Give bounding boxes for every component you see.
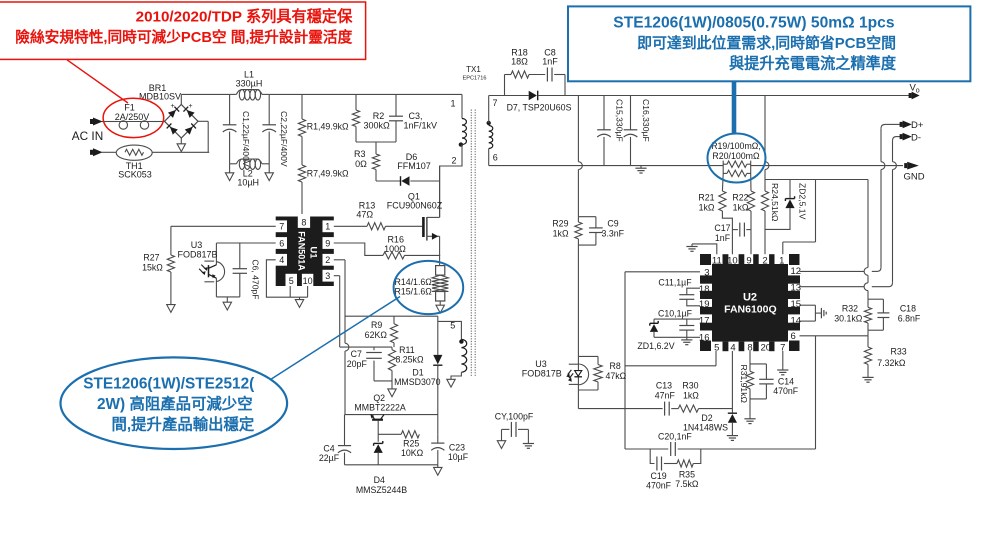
svg-text:1: 1 (325, 222, 330, 232)
ground pin7 (777, 351, 788, 375)
pin 6 label (493, 153, 498, 163)
svg-text:R9: R9 (371, 320, 382, 330)
Vo label (910, 83, 920, 95)
svg-text:MMSD3070: MMSD3070 (394, 377, 441, 387)
svg-text:2W) 高阻產品可減少空: 2W) 高阻產品可減少空 (97, 394, 253, 413)
resistor R18 (511, 71, 529, 78)
diode D6 (401, 176, 410, 186)
svg-text:C19: C19 (651, 471, 667, 481)
R7 label (307, 168, 349, 178)
Q2 label (354, 393, 405, 413)
resistor R32 (864, 299, 883, 330)
svg-text:C20,1nF: C20,1nF (658, 432, 692, 442)
zener D4 (374, 441, 383, 465)
svg-text:+: + (170, 103, 174, 110)
ground R14 R15 (436, 305, 444, 313)
R11 label (395, 345, 424, 364)
C13 label (655, 381, 676, 401)
R14 R15 labels (394, 277, 434, 297)
wire bridge to rail (180, 94, 182, 104)
resistor R31 (746, 351, 766, 416)
svg-text:0Ω: 0Ω (355, 159, 367, 169)
svg-text:R8: R8 (610, 361, 621, 371)
svg-text:即可達到此位置需求,同時節省PCB空間: 即可達到此位置需求,同時節省PCB空間 (637, 34, 896, 52)
transformer core (471, 110, 475, 377)
wire pin2 net (334, 260, 349, 415)
svg-text:R21: R21 (698, 193, 714, 203)
U2 label (724, 292, 777, 316)
svg-text:險絲安規特性,同時可減少PCB空 間,提升設計靈活度: 險絲安規特性,同時可減少PCB空 間,提升設計靈活度 (15, 28, 352, 46)
capacitor C15 (597, 96, 611, 166)
svg-text:MMBT2222A: MMBT2222A (354, 403, 405, 413)
ground C23 (434, 465, 442, 475)
secondary dot (487, 121, 491, 125)
svg-text:11: 11 (712, 255, 722, 266)
svg-text:R27: R27 (143, 252, 159, 262)
terminal D- (900, 133, 912, 141)
svg-text:6.8nF: 6.8nF (898, 314, 921, 324)
svg-text:7: 7 (493, 98, 498, 108)
resistor R25 (378, 431, 419, 438)
svg-text:R15/1.6Ω: R15/1.6Ω (395, 287, 433, 297)
svg-text:6: 6 (493, 153, 498, 163)
wire pin9 (334, 243, 383, 255)
U2 pin numbers (699, 255, 801, 353)
svg-text:間,提升產品輸出穩定: 間,提升產品輸出穩定 (112, 414, 255, 433)
resistor R13 (367, 223, 422, 230)
ground D2 (727, 433, 738, 440)
svg-text:22µF: 22µF (319, 453, 340, 463)
svg-text:1kΩ: 1kΩ (699, 203, 715, 213)
svg-text:C16,330µF: C16,330µF (641, 99, 651, 142)
svg-text:C6, 470pF: C6, 470pF (250, 259, 260, 299)
svg-text:470nF: 470nF (646, 481, 672, 491)
svg-text:FAN6100Q: FAN6100Q (724, 304, 777, 316)
R13 label (356, 200, 375, 219)
D1 label (394, 367, 441, 387)
wire feedback Vo (578, 96, 582, 217)
wire pin6 node (800, 330, 869, 336)
capacitor CY (497, 422, 534, 449)
C18 label (898, 303, 921, 323)
svg-text:16: 16 (699, 332, 710, 343)
C1 label (241, 111, 251, 167)
svg-text:U3: U3 (535, 359, 547, 369)
R16 label (384, 235, 406, 254)
svg-text:C14: C14 (778, 377, 794, 387)
wire rail to primary (461, 94, 463, 118)
svg-text:18Ω: 18Ω (511, 57, 528, 67)
inductor L2 (230, 159, 270, 169)
svg-text:47Ω: 47Ω (356, 210, 373, 220)
svg-text:2: 2 (451, 155, 456, 165)
pin 7 label (493, 98, 498, 108)
resistor R22 (747, 174, 754, 254)
blue circle R19 R20 (708, 134, 766, 183)
ground C2 (265, 164, 273, 181)
resistor R33 (864, 336, 871, 375)
wire GND rail (489, 165, 903, 167)
ground C10 (681, 337, 692, 344)
capacitor C17 (732, 223, 751, 237)
blue bubble (61, 357, 288, 449)
svg-text:ZD2,5.1V: ZD2,5.1V (798, 183, 808, 220)
zener ZD1 (650, 319, 658, 337)
CY label (495, 411, 534, 421)
capacitor C8 (529, 68, 565, 82)
wire D6 to drain (410, 180, 439, 182)
R27 label (142, 252, 163, 272)
wire Q2 bottom rail (345, 464, 439, 466)
ground C1 (225, 164, 233, 181)
svg-text:1nF: 1nF (542, 57, 558, 67)
svg-text:R20/100mΩ: R20/100mΩ (712, 151, 760, 161)
capacitor C7 (366, 347, 392, 381)
svg-text:D2: D2 (701, 413, 712, 423)
resistor R19 R20 (723, 161, 751, 177)
wire D+ net (800, 124, 901, 271)
AC input terminal L (90, 118, 117, 126)
capacitor C3 (389, 94, 403, 142)
svg-text:1: 1 (779, 255, 784, 266)
svg-text:47nF: 47nF (655, 390, 676, 400)
svg-text:2010/2020/TDP 系列具有穩定保: 2010/2020/TDP 系列具有穩定保 (136, 8, 353, 26)
C23 label (448, 442, 469, 462)
svg-text:R24,51kΩ: R24,51kΩ (770, 183, 780, 222)
TX1 label (463, 65, 487, 82)
C15 label (615, 99, 625, 142)
R3 label (354, 149, 367, 169)
terminal GND (904, 162, 919, 170)
capacitor C2 (262, 94, 276, 163)
resistor R1 (298, 94, 305, 136)
diode D2 (728, 413, 737, 433)
svg-text:D+: D+ (911, 120, 924, 131)
svg-text:1kΩ: 1kΩ (553, 229, 569, 239)
svg-text:8.25kΩ: 8.25kΩ (395, 355, 424, 365)
R21 label (698, 193, 714, 213)
TH1 label (118, 161, 152, 180)
svg-text:FOD817B: FOD817B (522, 369, 562, 379)
svg-text:5: 5 (450, 321, 455, 331)
svg-text:3.3nF: 3.3nF (602, 229, 625, 239)
C8 label (542, 47, 558, 66)
svg-text:1kΩ: 1kΩ (683, 390, 699, 400)
resistor R14 R15 (432, 266, 448, 306)
svg-text:1kΩ: 1kΩ (733, 203, 749, 213)
svg-text:R14/1.6Ω,: R14/1.6Ω, (394, 277, 434, 287)
svg-text:FAN501A: FAN501A (297, 231, 307, 271)
svg-text:EPC1716: EPC1716 (463, 76, 487, 82)
wire R1-R7 (301, 137, 303, 166)
red ellipse F1 (103, 98, 164, 137)
svg-text:R7,49.9kΩ: R7,49.9kΩ (307, 168, 349, 178)
wire opto to rail (577, 390, 579, 409)
blue note box (568, 6, 970, 81)
capacitor C6 (233, 243, 247, 297)
aux dot (459, 339, 463, 343)
svg-text:300kΩ: 300kΩ (364, 120, 391, 130)
wire opto ground (216, 297, 239, 310)
R30 label (682, 381, 699, 401)
svg-text:18: 18 (699, 284, 710, 295)
svg-text:9: 9 (325, 238, 330, 248)
U1 label (297, 231, 319, 271)
ground secondary (635, 166, 646, 173)
svg-text:2: 2 (762, 255, 767, 266)
red callout line (67, 60, 128, 103)
wire aux node (345, 316, 438, 355)
resistor R30 (678, 405, 732, 412)
svg-text:C18: C18 (900, 303, 916, 313)
svg-text:D1: D1 (412, 367, 423, 377)
ground aux (447, 379, 455, 387)
svg-text:6: 6 (279, 238, 284, 248)
svg-text:12: 12 (791, 266, 802, 277)
resistor R11 (388, 347, 395, 389)
svg-text:C15,330µF: C15,330µF (615, 99, 625, 142)
svg-text:R35: R35 (679, 469, 695, 479)
svg-text:AC IN: AC IN (72, 129, 103, 143)
C4 label (319, 443, 340, 462)
svg-text:19: 19 (699, 299, 710, 310)
wire pins 15 14 (800, 305, 821, 321)
svg-text:C9: C9 (607, 218, 618, 228)
wire Vo rail (538, 95, 909, 97)
D7 label (507, 102, 572, 112)
wire Q2 rail (345, 414, 439, 416)
ground pin11 (686, 244, 716, 254)
U3 LED label (522, 359, 562, 379)
ground pins 15 14 (821, 308, 826, 318)
svg-text:R32: R32 (842, 303, 858, 313)
svg-text:5: 5 (289, 276, 294, 286)
ground R27 (167, 305, 175, 313)
D4 label (356, 475, 407, 495)
C19 label (646, 471, 672, 491)
fuse F1 (117, 121, 165, 129)
R31 label (739, 365, 749, 404)
svg-text:R25: R25 (403, 438, 419, 448)
svg-text:CY,100pF: CY,100pF (495, 411, 534, 421)
capacitor C11 (679, 288, 700, 306)
capacitor C4 (338, 415, 351, 465)
wire HV rail (181, 93, 462, 95)
ground pin8 (744, 416, 755, 423)
capacitor C1 (223, 94, 237, 163)
pin 2 label (451, 155, 456, 165)
svg-text:C23: C23 (449, 442, 465, 452)
svg-text:D-: D- (911, 132, 921, 143)
resistor R24 (761, 180, 768, 255)
wire pin3 (625, 272, 700, 449)
svg-text:7.5kΩ: 7.5kΩ (675, 479, 699, 489)
svg-text:MMSZ5244B: MMSZ5244B (356, 485, 407, 495)
wire pin7 R27 (171, 226, 276, 255)
zener ZD2 (765, 180, 795, 230)
wire sense node (765, 179, 868, 181)
svg-text:10µH: 10µH (237, 177, 259, 187)
transistor Q1 (423, 166, 440, 266)
F1 label (115, 103, 150, 122)
svg-text:47kΩ: 47kΩ (606, 371, 627, 381)
terminal D+ (900, 121, 912, 129)
svg-text:C11,1µF: C11,1µF (658, 278, 692, 288)
L2 label (237, 168, 259, 187)
svg-text:62KΩ: 62KΩ (365, 330, 388, 340)
resistor R21 (719, 174, 733, 254)
wire D- net (800, 137, 901, 287)
R24 label (770, 183, 780, 222)
wire pin4 gnd (266, 260, 307, 308)
svg-text:330µH: 330µH (236, 78, 263, 88)
D+ label (911, 120, 924, 131)
resistor R16 (383, 252, 440, 259)
capacitor C13 (665, 402, 679, 416)
capacitor C18 (868, 299, 889, 330)
inductor L1 (230, 90, 270, 100)
svg-text:R30: R30 (682, 381, 698, 391)
R18 label (511, 47, 528, 66)
svg-text:9: 9 (746, 255, 751, 266)
svg-text:R31,91kΩ: R31,91kΩ (739, 365, 749, 404)
R33 label (877, 346, 906, 368)
svg-text:8: 8 (301, 218, 306, 228)
R25 label (401, 438, 424, 458)
svg-text:U1: U1 (308, 246, 319, 259)
R32 label (834, 303, 863, 323)
svg-text:20: 20 (761, 343, 772, 354)
terminal Vo (909, 92, 920, 100)
C7 label (347, 349, 368, 369)
svg-text:10: 10 (727, 255, 738, 266)
capacitor C20 (625, 336, 816, 456)
wire snubber left (505, 75, 512, 96)
svg-text:U3: U3 (191, 240, 203, 250)
svg-text:D7, TSP20U60S: D7, TSP20U60S (507, 102, 572, 112)
ground R11 (388, 389, 396, 397)
svg-text:30.1kΩ: 30.1kΩ (834, 314, 863, 324)
wire clamp bottom (356, 142, 396, 154)
R22 label (732, 193, 748, 213)
svg-text:R19/100mΩ,: R19/100mΩ, (711, 141, 761, 151)
D2 label (683, 413, 728, 433)
diode D7 (529, 91, 538, 101)
ic U1 FAN501A body (273, 214, 337, 288)
svg-text:10: 10 (303, 276, 313, 286)
wire pin6 (216, 242, 275, 244)
svg-text:FFM107: FFM107 (397, 161, 431, 171)
svg-text:FOD817B: FOD817B (177, 250, 217, 260)
resistor R2 (352, 94, 359, 142)
capacitor C9 (578, 217, 602, 245)
C20 label (658, 432, 692, 442)
bridge rectifier BR1 (165, 105, 199, 139)
GND label (904, 171, 925, 182)
blue ellipse R14 R15 (394, 261, 464, 314)
ZD1 label (637, 341, 674, 351)
R29 label (552, 218, 569, 238)
svg-text:C2,22µF/400V: C2,22µF/400V (279, 111, 289, 167)
svg-text:U2: U2 (743, 292, 757, 304)
capacitor C16 (624, 96, 638, 166)
svg-text:C7: C7 (351, 349, 362, 359)
svg-text:R29: R29 (552, 218, 568, 228)
C16 label (641, 99, 651, 142)
capacitor C23 (431, 434, 444, 465)
resistor R3 (372, 154, 400, 181)
capacitor C10 (654, 319, 700, 337)
C9 label (602, 218, 625, 238)
R8 label (606, 361, 627, 381)
capacitor C14 (750, 364, 774, 399)
C14 label (773, 377, 799, 397)
L1 label (236, 69, 263, 88)
wire Vo sense (765, 96, 769, 180)
wire pin3 net (334, 276, 392, 347)
primary dot (459, 142, 463, 146)
svg-text:+: + (188, 103, 192, 110)
resistor R35 (677, 449, 701, 467)
transistor Q2 (370, 414, 384, 442)
wire U3 rail (578, 408, 662, 410)
svg-text:7: 7 (279, 222, 284, 232)
svg-text:C13: C13 (656, 381, 672, 391)
svg-text:STE1206(1W)/0805(0.75W) 50mΩ 1: STE1206(1W)/0805(0.75W) 50mΩ 1pcs (613, 14, 895, 31)
svg-text:與提升充電電流之精準度: 與提升充電電流之精準度 (729, 54, 897, 72)
wire pin1 (334, 225, 367, 227)
svg-text:100Ω: 100Ω (384, 244, 406, 254)
pin 5 aux label (450, 321, 455, 331)
resistor R29 (575, 217, 596, 245)
svg-text:14: 14 (791, 316, 802, 327)
svg-text:D4: D4 (374, 475, 385, 485)
U1 pin numbers (279, 218, 330, 287)
R1 label (307, 122, 349, 132)
svg-text:5: 5 (714, 343, 719, 354)
svg-text:R22: R22 (732, 193, 748, 203)
svg-text:1nF: 1nF (715, 233, 731, 243)
svg-text:2: 2 (325, 255, 330, 265)
svg-text:STE1206(1W)/STE2512(: STE1206(1W)/STE2512( (83, 376, 255, 393)
U3 transistor label (177, 240, 217, 260)
wire pin1 riser (783, 180, 816, 255)
ic U2 FAN6100Q body (700, 254, 800, 351)
svg-text:FCU900N60Z: FCU900N60Z (387, 201, 443, 211)
aux winding (438, 321, 467, 379)
svg-text:3: 3 (704, 267, 709, 278)
svg-text:o: o (916, 87, 920, 94)
svg-text:17: 17 (699, 316, 710, 327)
svg-text:4: 4 (730, 343, 735, 354)
wire secondary bottom (488, 149, 490, 166)
C10 label (658, 308, 693, 318)
pin 1 label (450, 99, 455, 109)
wire pin5 (625, 351, 716, 366)
svg-text:TX1: TX1 (466, 65, 481, 74)
svg-text:20pF: 20pF (347, 359, 368, 369)
resistor R9 (390, 316, 397, 347)
svg-text:7.32kΩ: 7.32kΩ (877, 358, 906, 368)
ground R33 (862, 375, 873, 382)
D6 label (397, 152, 431, 171)
svg-text:ZD1,6.2V: ZD1,6.2V (637, 341, 674, 351)
AC input terminal N (90, 148, 116, 156)
svg-text:2A/250V: 2A/250V (115, 112, 150, 122)
R2 label (364, 111, 391, 130)
svg-text:13: 13 (791, 283, 802, 294)
svg-text:15kΩ: 15kΩ (142, 262, 163, 272)
